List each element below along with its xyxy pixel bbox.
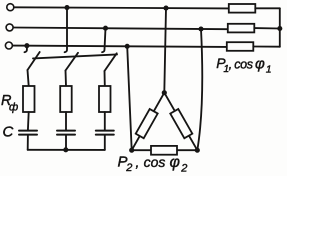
node delta bottom-left vertex [129,148,134,153]
wire phase line 3 [13,46,227,47]
node delta top vertex [162,90,167,95]
svg-text:1: 1 [266,63,272,75]
resistor P1b [228,24,255,33]
node bus junction [63,147,68,152]
wire feed pole1 with hook contact [25,46,27,53]
resistor P1a [229,4,256,13]
wire feed pole2 with hook contact [65,8,67,53]
svg-text:cos: cos [144,154,166,170]
wire C1 to bus [27,135,29,150]
wire Rf2 to C2 [65,112,67,130]
svg-text:ф: ф [9,102,18,114]
resistor P2 right (in delta right side) [170,109,192,138]
switch coupling bar [33,54,117,58]
wire C3 to bus [104,135,106,150]
switch blade pole3 [105,53,117,71]
wire C2 to bus [65,135,67,150]
node right bus junction [277,26,282,31]
wire phase line 1 [14,7,228,8]
node line2-delta feed [198,26,203,31]
wire delta left side [132,93,165,151]
node line2-switch3 feed [103,26,108,31]
resistor Rf2 [60,86,71,112]
terminal B [6,24,13,31]
wire P1b to right bus [254,27,279,29]
svg-text:,: , [136,154,140,170]
wire delta feed center (from line 1) [164,8,166,93]
svg-text:2: 2 [125,162,132,174]
svg-text:cos: cos [234,57,253,71]
node line1-switch2 feed [64,5,69,10]
terminal A [7,4,14,11]
wire blade3 to R3f [104,71,106,86]
wire Rf1 to C1 [27,112,30,130]
wire blade2 to R2f [65,71,68,87]
switch blade pole1 [28,52,40,70]
capacitor C1 [19,131,37,135]
resistor P1c [227,42,254,51]
resistor P2 bottom (in delta bottom side) [151,146,177,155]
wire feed pole3 with hook contact [102,28,105,52]
svg-text:φ: φ [170,154,180,171]
wire P1a to right bus [255,7,279,9]
node line3-delta feed [125,44,130,49]
svg-text:2: 2 [180,163,187,175]
switch blade pole2 [66,53,79,71]
wire Rf3 to C3 [104,112,106,130]
terminal C [5,42,12,49]
wire right bus vertical [279,8,281,46]
svg-text:φ: φ [255,55,265,72]
wire P1c to right bus [253,46,279,48]
capacitor C2 [57,131,75,135]
node line1-delta feed [163,6,168,11]
resistor P2 left (in delta left side) [136,109,158,138]
node line3-switch1 feed [24,43,29,48]
wire phase line 2 [13,28,227,30]
wire delta bottom side [132,149,198,151]
wire bottom bus [28,149,105,151]
resistor Rf1 [23,86,35,112]
wire delta feed left (from line 3) [127,46,132,150]
wire delta right side [164,93,197,151]
capacitor C3 [96,131,114,135]
resistor Rf3 [99,86,111,112]
node delta bottom-right vertex [195,148,200,153]
svg-text:C: C [3,124,14,141]
svg-text:,: , [229,57,233,72]
wire blade1 to R1f [28,70,29,86]
wire delta feed right (from line 2) [197,29,202,150]
